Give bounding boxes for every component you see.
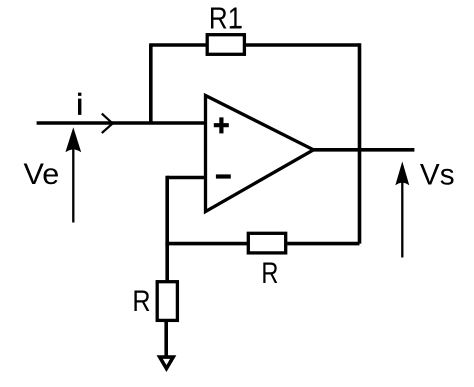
svg-text:R: R [132, 284, 150, 318]
wire: top feedback horizontal [149, 43, 359, 47]
wire: inverting input horizontal [167, 176, 206, 180]
op-amp minus sign [216, 174, 231, 178]
wire: left vertical feedback riser [149, 45, 153, 123]
svg-text:Vs: Vs [420, 158, 455, 191]
resistor R1 [207, 35, 244, 55]
svg-text:Ve: Ve [24, 158, 60, 191]
resistor R (bottom horizontal) [248, 233, 285, 253]
wire: bottom horizontal through R to right vertical [165, 242, 359, 246]
op-amp U1 [206, 96, 314, 212]
Vs arrow [401, 181, 403, 258]
op-amp plus sign [214, 117, 229, 133]
svg-text:R: R [261, 257, 278, 290]
svg-text:i: i [76, 89, 83, 122]
wire: output from op-amp apex [312, 148, 414, 152]
svg-text:R1: R1 [209, 2, 242, 37]
wire: inverting-node vertical [165, 176, 169, 281]
ground [160, 357, 174, 368]
current arrow chevron [102, 114, 113, 133]
resistor R (vertical to ground) [157, 282, 177, 321]
Ve arrow [72, 147, 74, 223]
wire: input horizontal to non-inverting input [37, 121, 206, 125]
wire: ground stub below vertical resistor [164, 320, 168, 357]
wire: right vertical feedback [358, 43, 362, 243]
